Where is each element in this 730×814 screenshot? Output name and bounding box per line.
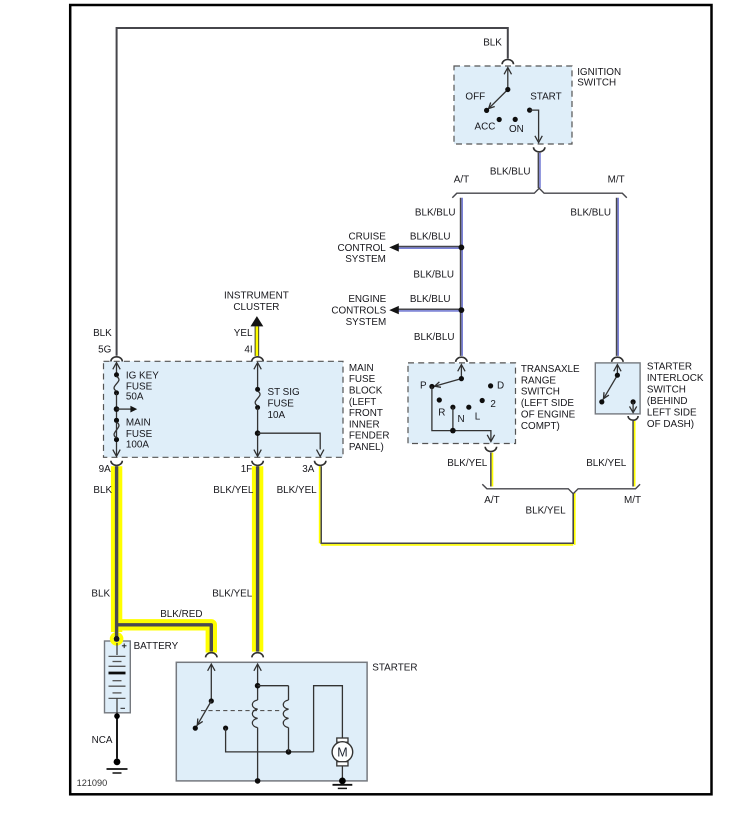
svg-text:IG KEY: IG KEY: [126, 371, 159, 382]
svg-text:ACC: ACC: [475, 121, 496, 132]
svg-text:BLK: BLK: [93, 328, 112, 339]
svg-text:9A: 9A: [99, 464, 111, 475]
svg-text:ST SIG: ST SIG: [268, 387, 300, 398]
svg-text:BLK: BLK: [93, 485, 112, 496]
svg-text:START: START: [530, 92, 561, 103]
svg-text:R: R: [438, 408, 445, 419]
svg-text:SYSTEM: SYSTEM: [346, 317, 387, 328]
svg-text:OFF: OFF: [465, 92, 485, 103]
svg-text:L: L: [475, 411, 481, 422]
svg-text:BLK/BLU: BLK/BLU: [410, 294, 451, 305]
svg-text:MAIN: MAIN: [349, 363, 374, 374]
svg-text:BLK/BLU: BLK/BLU: [410, 232, 451, 243]
svg-text:M: M: [337, 746, 347, 760]
svg-text:BLK/YEL: BLK/YEL: [447, 458, 488, 469]
svg-text:SYSTEM: SYSTEM: [345, 254, 386, 265]
svg-text:BLK/RED: BLK/RED: [160, 609, 202, 620]
svg-text:P: P: [420, 381, 427, 392]
svg-text:MAIN: MAIN: [126, 418, 151, 429]
svg-text:1F: 1F: [241, 464, 253, 475]
svg-text:YEL: YEL: [234, 328, 253, 339]
svg-text:D: D: [497, 381, 504, 392]
svg-text:TRANSAXLE: TRANSAXLE: [521, 364, 580, 375]
svg-text:COMPT): COMPT): [521, 421, 560, 432]
svg-text:A/T: A/T: [484, 495, 499, 506]
svg-text:100A: 100A: [126, 440, 149, 451]
svg-text:5G: 5G: [98, 344, 111, 355]
svg-text:(LEFT: (LEFT: [349, 397, 376, 408]
svg-text:INTERLOCK: INTERLOCK: [647, 373, 704, 384]
svg-text:SWITCH: SWITCH: [521, 387, 560, 398]
svg-text:50A: 50A: [126, 392, 144, 403]
svg-text:RANGE: RANGE: [521, 375, 557, 386]
svg-text:BLK: BLK: [483, 37, 502, 48]
svg-text:OF DASH): OF DASH): [647, 419, 694, 430]
svg-text:BLOCK: BLOCK: [349, 386, 383, 397]
svg-text:ENGINE: ENGINE: [348, 294, 386, 305]
svg-text:2: 2: [490, 399, 496, 410]
svg-text:STARTER: STARTER: [647, 362, 692, 373]
svg-text:LEFT SIDE: LEFT SIDE: [647, 408, 697, 419]
svg-text:BLK: BLK: [91, 588, 110, 599]
svg-text:BLK/BLU: BLK/BLU: [570, 207, 611, 218]
svg-text:M/T: M/T: [624, 495, 641, 506]
svg-text:STARTER: STARTER: [372, 663, 417, 674]
svg-text:10A: 10A: [268, 410, 286, 421]
svg-text:BLK/BLU: BLK/BLU: [490, 166, 531, 177]
svg-text:BLK/BLU: BLK/BLU: [415, 207, 456, 218]
svg-text:CONTROL: CONTROL: [338, 243, 387, 254]
svg-text:SWITCH: SWITCH: [647, 385, 686, 396]
svg-text:CONTROLS: CONTROLS: [331, 306, 386, 317]
svg-text:BLK/YEL: BLK/YEL: [277, 485, 318, 496]
svg-text:INSTRUMENT: INSTRUMENT: [224, 291, 289, 302]
svg-text:FUSE: FUSE: [268, 398, 295, 409]
svg-text:3A: 3A: [302, 464, 314, 475]
svg-text:N: N: [458, 414, 465, 425]
svg-text:SWITCH: SWITCH: [577, 77, 616, 88]
svg-text:4I: 4I: [244, 344, 252, 355]
svg-text:NCA: NCA: [92, 735, 113, 746]
svg-text:(LEFT SIDE: (LEFT SIDE: [521, 398, 574, 409]
svg-text:PANEL): PANEL): [349, 442, 384, 453]
svg-text:BLK/YEL: BLK/YEL: [213, 485, 254, 496]
svg-text:ON: ON: [509, 124, 524, 135]
svg-text:M/T: M/T: [608, 175, 625, 186]
svg-text:121090: 121090: [77, 778, 108, 788]
svg-text:BLK/YEL: BLK/YEL: [526, 506, 567, 517]
svg-text:CRUISE: CRUISE: [348, 232, 386, 243]
svg-text:BATTERY: BATTERY: [134, 641, 179, 652]
svg-text:BLK/BLU: BLK/BLU: [414, 332, 455, 343]
svg-text:FRONT: FRONT: [349, 408, 383, 419]
svg-text:FUSE: FUSE: [349, 374, 376, 385]
svg-text:BLK/YEL: BLK/YEL: [586, 458, 627, 469]
svg-text:FUSE: FUSE: [126, 429, 153, 440]
svg-text:(BEHIND: (BEHIND: [647, 396, 688, 407]
svg-text:BLK/BLU: BLK/BLU: [413, 270, 454, 281]
svg-text:INNER: INNER: [349, 419, 380, 430]
svg-text:OF ENGINE: OF ENGINE: [521, 410, 576, 421]
svg-text:BLK/YEL: BLK/YEL: [212, 588, 253, 599]
svg-text:A/T: A/T: [454, 175, 469, 186]
svg-text:FENDER: FENDER: [349, 431, 390, 442]
svg-text:CLUSTER: CLUSTER: [233, 302, 279, 313]
